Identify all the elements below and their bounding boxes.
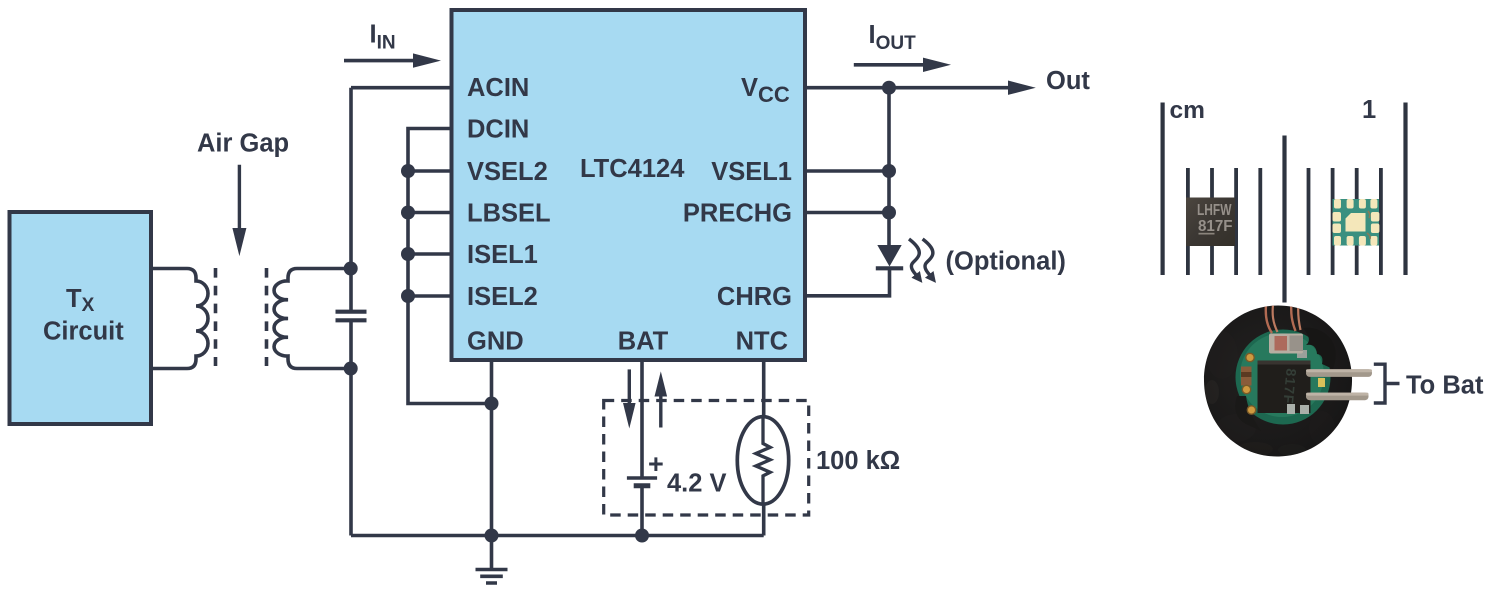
wire primary top stub — [151, 267, 187, 271]
thermistor ellipse — [737, 417, 788, 505]
node bus ISEL2 — [401, 289, 415, 303]
svg-text:DCIN: DCIN — [467, 116, 529, 144]
wire battery to rail — [640, 486, 644, 536]
wire VCC out — [805, 86, 1012, 90]
LED light arrow 1 — [909, 239, 919, 275]
wire BAT down — [640, 362, 644, 479]
svg-text:ISEL1: ISEL1 — [467, 241, 538, 269]
ruler tall tick right — [1403, 103, 1407, 276]
IOUT arrow — [854, 63, 926, 67]
wire cap to bottom rail — [349, 369, 353, 536]
ruler mm tick 3 — [1234, 168, 1238, 275]
node bus VSEL2 — [401, 164, 415, 178]
wire NTC down — [762, 362, 766, 536]
wire DCIN — [408, 129, 492, 404]
node junction secondary bottom — [344, 362, 358, 376]
chip photo DFN dark — [1186, 198, 1235, 247]
ruler mm tick 2 — [1210, 168, 1214, 275]
core dashed line secondary — [265, 268, 269, 366]
svg-text:BAT: BAT — [618, 328, 669, 356]
tan component — [1269, 334, 1303, 354]
svg-text:To Bat: To Bat — [1406, 371, 1484, 399]
wire ISEL1 — [408, 252, 452, 256]
svg-text:CHRG: CHRG — [717, 283, 792, 311]
node bus ISEL1 — [401, 247, 415, 261]
solder dots — [1246, 353, 1254, 361]
svg-text:VSEL2: VSEL2 — [467, 158, 548, 186]
arrowhead Out — [1008, 81, 1036, 95]
IC LTC4124 body — [452, 10, 806, 360]
svg-text:100 kΩ: 100 kΩ — [816, 447, 900, 475]
wire GND pin down — [490, 362, 494, 569]
ruler mm tick 1 — [1186, 168, 1190, 275]
ruler tall tick left — [1161, 103, 1165, 276]
svg-text:IIN: IIN — [370, 21, 396, 54]
node junction secondary top — [344, 262, 358, 276]
Tx circuit box — [10, 212, 152, 424]
bracket To Bat — [1374, 364, 1400, 403]
node GND-DCIN junction — [485, 397, 499, 411]
wire bottom rail — [351, 534, 764, 538]
wire LBSEL — [408, 211, 452, 215]
svg-text:NTC: NTC — [736, 328, 788, 356]
svg-text:LHFW: LHFW — [1197, 202, 1232, 219]
node BAT rail junction — [635, 529, 649, 543]
wire VSEL1 — [805, 169, 889, 173]
wire ACIN riser — [349, 88, 353, 369]
ruler mm tick 8 — [1379, 168, 1383, 275]
svg-text:Out: Out — [1046, 67, 1090, 95]
current arrow up at BAT — [659, 396, 662, 428]
svg-text:VSEL1: VSEL1 — [711, 158, 792, 186]
LED light arrow 2 — [923, 239, 933, 275]
wire PRECHG — [805, 211, 889, 215]
svg-text:Air Gap: Air Gap — [197, 130, 289, 158]
LED D1 triangle — [877, 245, 901, 267]
battery plus plate — [627, 476, 657, 479]
receiver photo round battery — [1204, 301, 1372, 457]
inductor L primary — [187, 269, 208, 369]
svg-text:ACIN: ACIN — [467, 74, 529, 102]
node VSEL1 junction — [882, 164, 896, 178]
current arrow down at BAT — [628, 369, 631, 404]
core dashed line primary — [214, 268, 218, 366]
wire ISEL2 — [408, 294, 452, 298]
pins — [1306, 369, 1372, 377]
Air Gap arrow — [238, 165, 241, 232]
IIN arrow — [344, 59, 416, 63]
svg-text:PRECHG: PRECHG — [683, 200, 792, 228]
node PRECHG junction — [882, 206, 896, 220]
LED cathode bar — [876, 266, 903, 270]
battery minus plate — [634, 483, 651, 488]
svg-text:+: + — [648, 449, 664, 479]
svg-text:LTC4124: LTC4124 — [580, 155, 685, 183]
wire primary bottom stub — [151, 367, 187, 371]
ruler mm tick 6 — [1331, 168, 1335, 275]
ruler half-cm tick center — [1282, 136, 1286, 303]
inductor L secondary — [274, 269, 351, 369]
wire VSEL2 — [408, 169, 452, 173]
wire ACIN horizontal — [351, 86, 452, 90]
copper wires — [1266, 301, 1272, 333]
ruler mm tick 5 — [1307, 168, 1311, 275]
green PCB disc — [1236, 330, 1331, 425]
chip photo QFN gold — [1333, 199, 1380, 246]
svg-text:GND: GND — [467, 328, 524, 356]
IC on PCB — [1258, 361, 1311, 414]
thermistor zigzag — [756, 417, 770, 505]
svg-text:(Optional): (Optional) — [946, 248, 1066, 276]
svg-text:Circuit: Circuit — [43, 318, 124, 346]
ground symbol — [476, 570, 508, 584]
wire VCC vertical to LED — [887, 88, 891, 245]
brown resistor — [1241, 367, 1252, 386]
ruler mm tick 4 — [1258, 168, 1262, 275]
svg-text:LBSEL: LBSEL — [467, 200, 551, 228]
capacitor C — [336, 312, 367, 321]
node VCC junction — [882, 81, 896, 95]
wire LED to CHRG — [805, 268, 890, 296]
svg-text:1: 1 — [1362, 96, 1376, 124]
svg-text:817F: 817F — [1198, 218, 1233, 235]
svg-text:cm: cm — [1170, 97, 1205, 124]
battery dashed box — [604, 401, 809, 516]
svg-text:IOUT: IOUT — [869, 21, 917, 54]
svg-text:ISEL2: ISEL2 — [467, 283, 538, 311]
node bus LBSEL — [401, 206, 415, 220]
node GND-rail junction — [485, 529, 499, 543]
ruler mm tick 7 — [1355, 168, 1359, 275]
svg-text:4.2 V: 4.2 V — [667, 470, 727, 498]
gray pads — [1287, 404, 1295, 414]
svg-text:817F: 817F — [1280, 368, 1299, 405]
